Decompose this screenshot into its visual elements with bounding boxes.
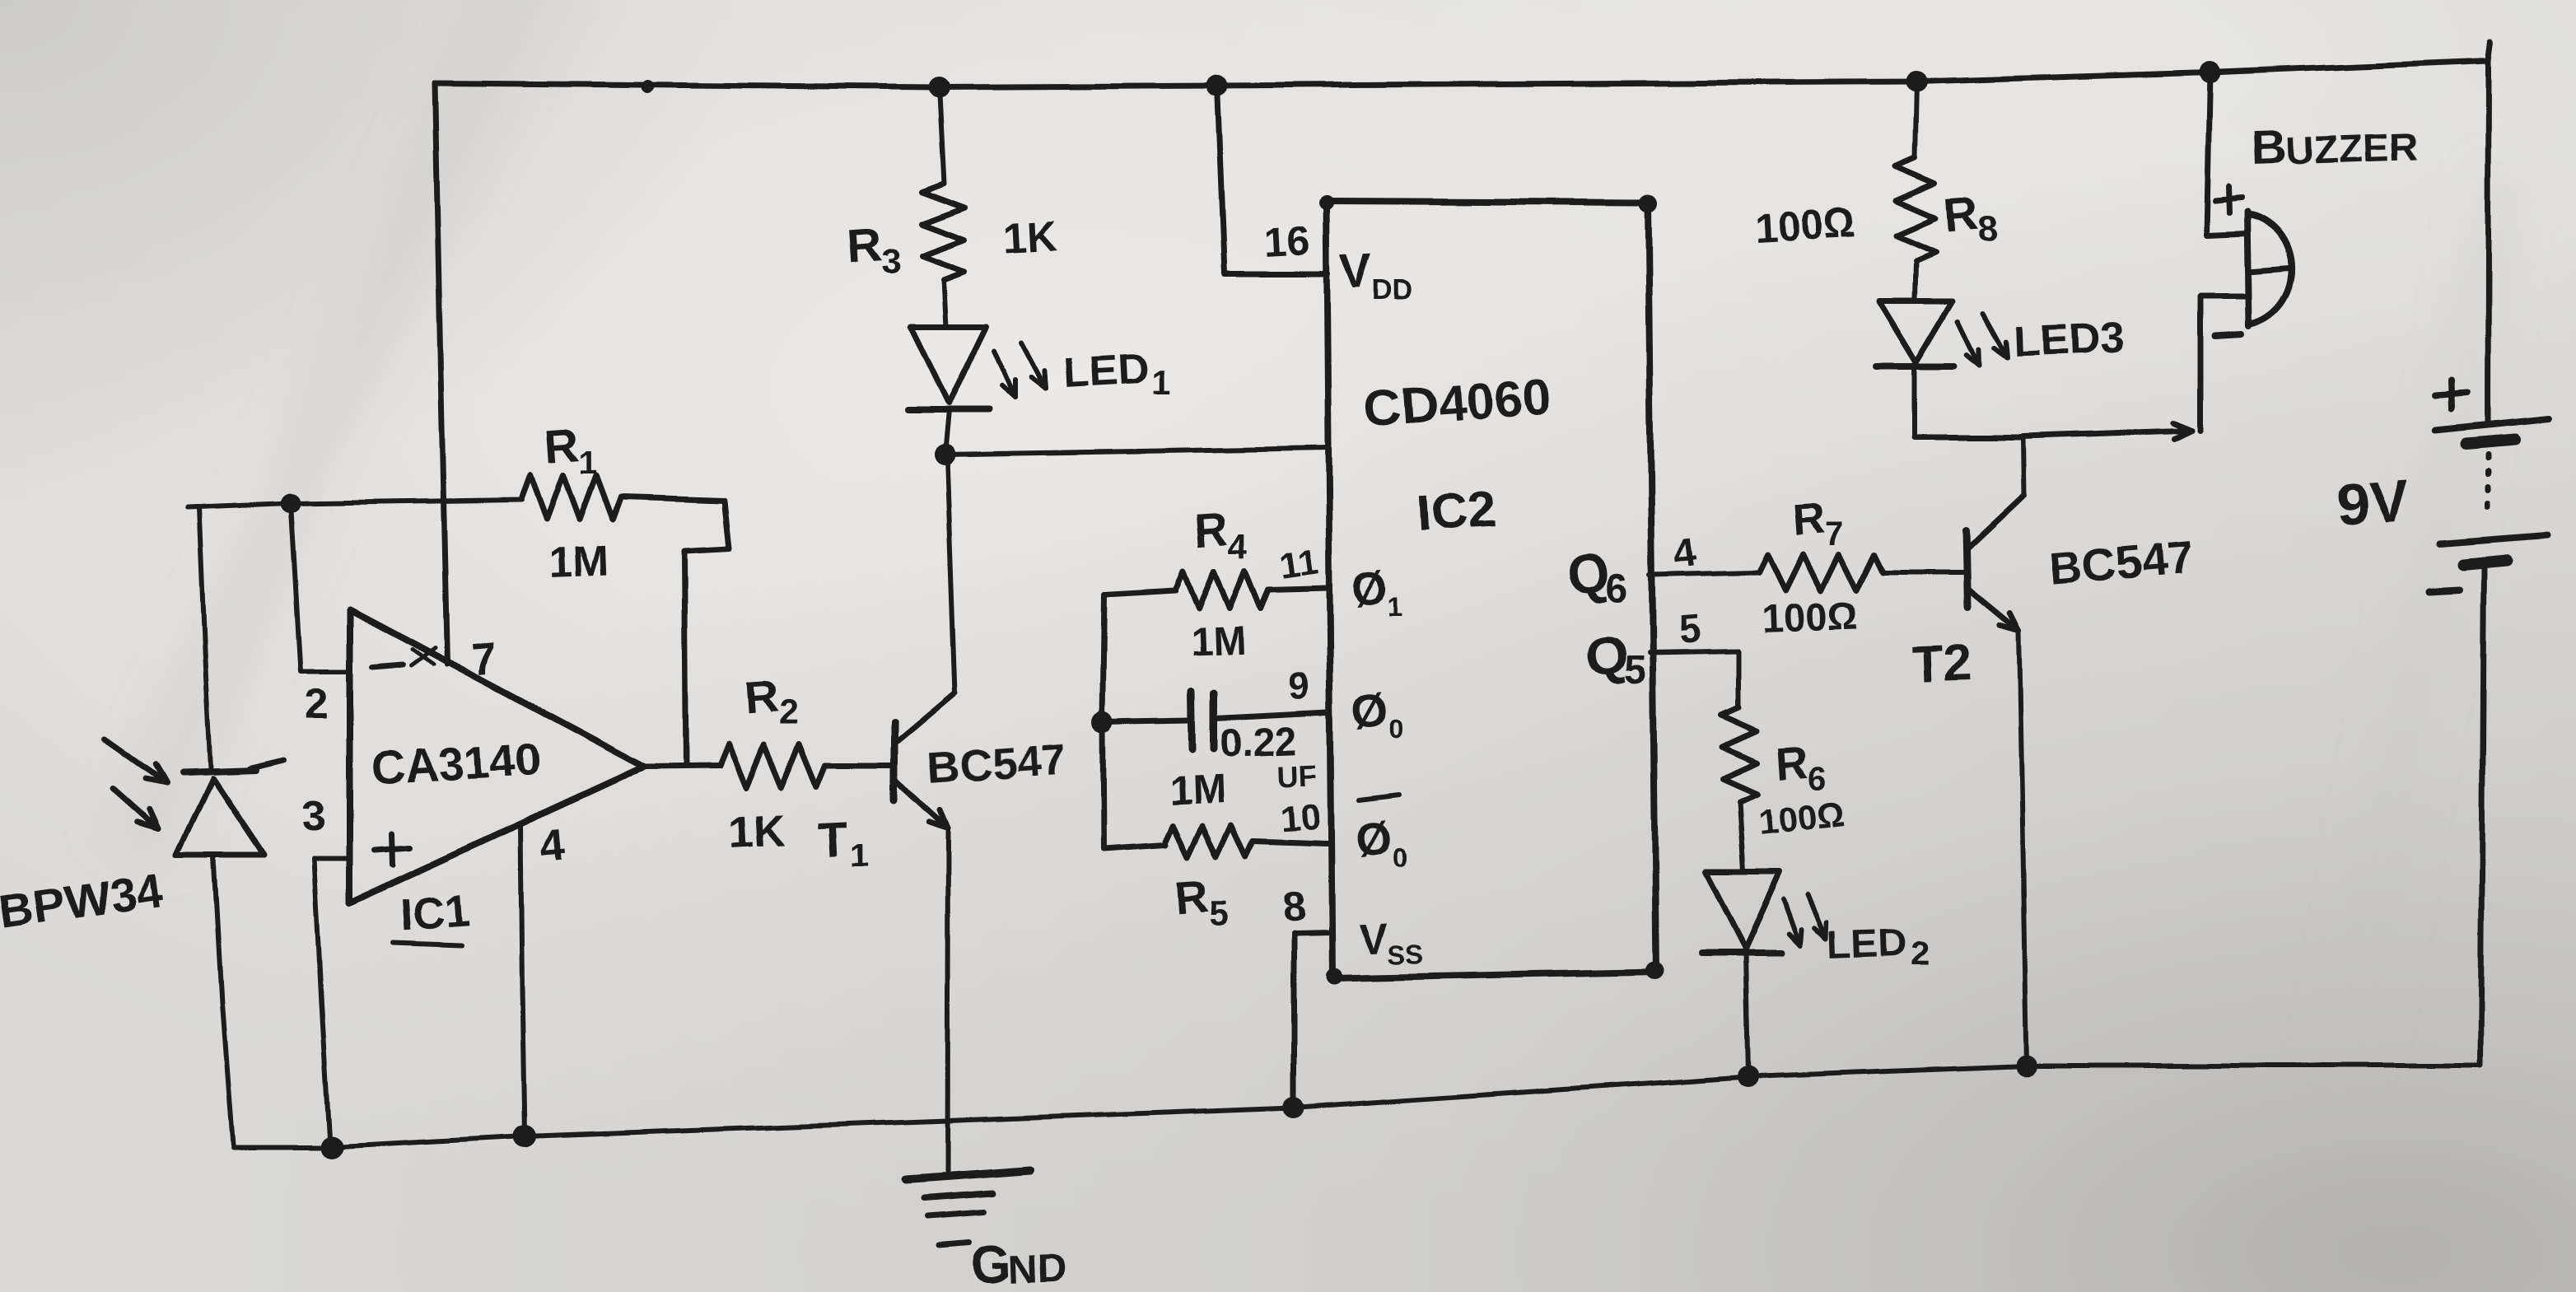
op-amp minus sign: [372, 665, 402, 667]
label pin 7: [470, 632, 500, 685]
svg-text:1: 1: [1388, 592, 1402, 622]
svg-text:7: 7: [1825, 516, 1843, 553]
label Q5: [1583, 623, 1646, 693]
label R8: [1942, 187, 1998, 250]
svg-text:SS: SS: [1388, 940, 1424, 969]
label R5: [1173, 870, 1228, 933]
label R8 value 100ohm: [1754, 200, 1857, 251]
wire T2 collector up to LED3 node: [2023, 437, 2024, 496]
resistor R1: [522, 475, 621, 520]
svg-text:IC1: IC1: [399, 886, 471, 940]
resistor R2: [720, 744, 825, 787]
label buzzer plus: [2215, 186, 2242, 212]
label pin 5 Q5: [1677, 608, 1702, 653]
label BC547 T1: [926, 735, 1068, 794]
junction blob on top rail: [642, 80, 655, 93]
label phi0 pin: [1350, 683, 1403, 744]
wire R4 to pin 11: [1268, 588, 1328, 590]
label LED2: [1827, 921, 1930, 972]
label pin 16: [1263, 217, 1311, 266]
wire R1 right to op-amp output: [621, 497, 730, 766]
label buzzer minus: [2215, 334, 2242, 336]
svg-text:8: 8: [1978, 210, 1998, 250]
svg-text:B: B: [2250, 119, 2288, 175]
light arrow 1 into BPW34: [105, 739, 166, 782]
wire LED3 T2 node to buzzer minus: [1915, 423, 2192, 440]
wire R3 to LED1: [943, 280, 945, 326]
label CA3140: [370, 733, 541, 794]
svg-text:6: 6: [1808, 760, 1827, 796]
svg-text:Ø: Ø: [1353, 811, 1394, 866]
label R7 value 100ohm: [1762, 595, 1860, 641]
svg-text:16: 16: [1263, 217, 1311, 266]
svg-text:2: 2: [305, 680, 329, 728]
svg-text:9: 9: [1288, 665, 1311, 708]
label pin 2: [305, 680, 329, 728]
svg-text:IC2: IC2: [1416, 481, 1498, 542]
svg-text:R: R: [1173, 870, 1210, 924]
label T2: [1911, 635, 1972, 693]
svg-text:6: 6: [1606, 567, 1628, 610]
label R7: [1791, 493, 1844, 553]
resistor R7: [1759, 554, 1883, 590]
svg-text:5: 5: [1624, 649, 1646, 693]
label IC1: [394, 886, 471, 945]
svg-text:1: 1: [579, 445, 597, 481]
label GND: [970, 1234, 1067, 1292]
transistor Q2 T2 BC547: [1967, 496, 2024, 631]
wire R5 to pin 10: [1253, 842, 1328, 844]
svg-text:UF: UF: [1277, 758, 1318, 794]
svg-text:100Ω: 100Ω: [1762, 595, 1860, 641]
svg-text:10: 10: [1279, 797, 1322, 840]
wire T1 collector to LED1 node: [947, 458, 955, 693]
label R1: [543, 417, 597, 481]
svg-text:Ø: Ø: [1350, 561, 1391, 616]
label pin 4: [539, 818, 568, 870]
svg-text:R: R: [1192, 502, 1230, 557]
svg-text:2: 2: [778, 693, 797, 732]
label R3: [845, 218, 900, 281]
svg-text:CA3140: CA3140: [370, 733, 541, 794]
wire R7 to T2 base: [1883, 570, 1966, 575]
IC U2 CD4060 box: [1318, 194, 1664, 985]
svg-text:100Ω: 100Ω: [1754, 200, 1857, 251]
wire buzzer minus vertical: [2200, 296, 2247, 431]
wire photodiode cathode up to R1 node: [198, 507, 210, 769]
node Vss ground: [1283, 1097, 1304, 1118]
svg-text:DD: DD: [1372, 275, 1412, 306]
wire op-amp pin 4 to ground rail: [520, 824, 525, 1134]
label BPW34: [0, 864, 166, 940]
light arrow 2 into BPW34: [114, 789, 158, 828]
resistor R8: [1896, 158, 1935, 261]
svg-text:R: R: [742, 670, 779, 725]
svg-text:BC547: BC547: [926, 735, 1068, 794]
node top rail to R3: [928, 77, 950, 98]
wire LED1 node to IC2 left edge: [945, 448, 1328, 455]
label LED3: [2013, 314, 2124, 366]
svg-text:5: 5: [1677, 608, 1702, 653]
label battery 9V: [2334, 468, 2410, 539]
node top rail to buzzer: [2199, 62, 2220, 83]
svg-text:11: 11: [1277, 541, 1321, 586]
svg-text:R: R: [543, 417, 581, 473]
svg-text:3: 3: [302, 792, 326, 840]
label C1 value uF: [1277, 758, 1318, 794]
label R2 value 1K: [727, 805, 786, 858]
label pin 11: [1277, 541, 1321, 586]
node top rail to IC2 Vdd: [1206, 75, 1228, 96]
svg-text:R: R: [1942, 187, 1980, 243]
LED1 emission arrows: [994, 343, 1046, 399]
svg-text:4: 4: [1229, 527, 1248, 566]
LED D2 LED2: [1701, 872, 1781, 1076]
svg-text:1M: 1M: [1190, 619, 1246, 665]
wire top rail to R8: [1916, 82, 1917, 158]
svg-text:1M: 1M: [548, 537, 609, 586]
wire R4 left lead: [1104, 590, 1176, 595]
battery BT1 9V: [2436, 419, 2549, 1066]
svg-text:R: R: [1791, 493, 1827, 545]
svg-text:R: R: [845, 218, 883, 274]
label IC2: [1416, 481, 1498, 542]
label R2: [742, 670, 797, 732]
wire op-amp output: [645, 766, 720, 767]
wire R8 to LED3: [1915, 261, 1916, 301]
buzzer BZ1: [2247, 212, 2292, 326]
wire top rail to battery plus: [2488, 43, 2491, 425]
ground symbol GND: [906, 1170, 1031, 1245]
wire op-amp pin 7 to top rail: [435, 83, 447, 664]
label Vdd: [1339, 245, 1412, 306]
label phi0bar pin: [1353, 795, 1407, 872]
wire top supply rail: [435, 61, 2489, 87]
svg-text:9V: 9V: [2334, 468, 2410, 539]
svg-text:T2: T2: [1911, 635, 1972, 693]
op-amp plus sign: [375, 833, 410, 865]
svg-text:T: T: [817, 812, 849, 867]
label Q6: [1565, 541, 1628, 610]
wire R6 to LED2: [1739, 801, 1743, 872]
scribble x near pin 7: [410, 647, 435, 665]
label R1 value 1M: [548, 537, 609, 586]
label LED1: [1062, 345, 1171, 401]
LED2 emission arrows: [1784, 894, 1827, 945]
wire oscillator left bus: [1092, 595, 1113, 849]
svg-text:LED3: LED3: [2013, 314, 2124, 366]
transistor Q1 T1 BC547: [894, 693, 955, 829]
svg-text:8: 8: [1281, 883, 1307, 930]
svg-text:4: 4: [539, 818, 568, 870]
svg-text:1K: 1K: [1001, 213, 1059, 264]
label BUZZER: [2250, 119, 2418, 175]
op-amp U1 CA3140 triangle: [350, 609, 645, 903]
label pin 10: [1279, 797, 1322, 840]
svg-text:V: V: [1359, 915, 1389, 963]
svg-text:UZZER: UZZER: [2285, 125, 2419, 174]
label R3 value 1K: [1001, 213, 1059, 264]
resistor R4: [1176, 571, 1268, 609]
wire Q6 pin 4 to R7: [1650, 572, 1759, 575]
wire non-inverting input pin 3: [314, 856, 350, 861]
wire T2 emitter down to ground rail: [2019, 631, 2027, 1066]
wire R1 left / inverting node: [187, 493, 522, 513]
label R5 value 1M: [1168, 767, 1226, 814]
LED D3 LED3: [1876, 301, 1954, 437]
label T1: [817, 812, 868, 874]
wire T1 emitter down to ground symbol: [947, 829, 948, 1171]
label phi1 pin: [1350, 561, 1402, 622]
wire R2 to T1 base: [825, 763, 894, 769]
svg-text:2: 2: [1911, 934, 1930, 972]
svg-text:1: 1: [850, 837, 868, 874]
label pin 8: [1281, 883, 1307, 930]
LED3 emission arrows: [1958, 313, 2008, 366]
svg-text:1K: 1K: [727, 805, 786, 858]
LED D1 LED1: [908, 326, 989, 455]
wire Q5 pin 5 to R6: [1650, 651, 1738, 708]
label R6: [1775, 737, 1827, 796]
node T2 emitter ground: [2016, 1055, 2037, 1076]
label pin 9: [1288, 665, 1311, 708]
svg-text:1M: 1M: [1168, 767, 1226, 814]
svg-text:LED: LED: [1827, 921, 1908, 968]
capacitor C1 0.22uF: [1103, 692, 1328, 749]
svg-text:V: V: [1339, 245, 1373, 299]
svg-text:7: 7: [470, 632, 500, 685]
node LED2 to ground rail: [1737, 1066, 1758, 1087]
svg-text:R: R: [1775, 737, 1810, 789]
label R6 value 100ohm: [1756, 794, 1848, 843]
label battery minus: [2429, 590, 2459, 591]
label pin 3: [302, 792, 326, 840]
label battery plus: [2434, 380, 2467, 409]
resistor R6: [1722, 708, 1757, 801]
label Vss: [1359, 915, 1423, 969]
svg-text:G: G: [970, 1234, 1013, 1292]
wire top rail to Vdd pin 16: [1217, 86, 1328, 274]
node LED1 cathode junction: [934, 444, 955, 465]
wire top rail to R3: [939, 87, 944, 184]
svg-text:ND: ND: [1009, 1247, 1067, 1292]
resistor R3: [922, 184, 964, 280]
wire Vss pin 8 to ground rail: [1294, 932, 1331, 1108]
resistor R5: [1166, 826, 1253, 857]
svg-text:Ø: Ø: [1350, 683, 1391, 738]
label CD4060: [1362, 368, 1553, 438]
svg-text:LED: LED: [1062, 345, 1150, 397]
photodiode D1 BPW34: [176, 760, 284, 1145]
node top rail to R8: [1906, 71, 1928, 92]
label R4: [1192, 502, 1248, 566]
svg-text:5: 5: [1209, 894, 1228, 933]
node pin4 ground: [513, 1125, 536, 1148]
wire bottom ground rail: [233, 1066, 2480, 1147]
wire top rail to buzzer plus: [2206, 72, 2247, 235]
label pin 4 Q6: [1670, 531, 1698, 577]
label R4 value 1M: [1190, 619, 1246, 665]
wire inverting input pin 2: [291, 503, 350, 671]
svg-text:0: 0: [1388, 714, 1403, 744]
svg-text:0: 0: [1392, 842, 1407, 872]
svg-text:3: 3: [881, 242, 900, 281]
label BC547 T2: [2047, 530, 2195, 595]
wire R5 left lead: [1104, 845, 1166, 849]
svg-text:1: 1: [1151, 362, 1170, 401]
wire pin 3 to ground rail: [314, 858, 329, 1145]
label C1 value 0.22: [1220, 721, 1298, 767]
node pin3 ground: [320, 1136, 343, 1159]
